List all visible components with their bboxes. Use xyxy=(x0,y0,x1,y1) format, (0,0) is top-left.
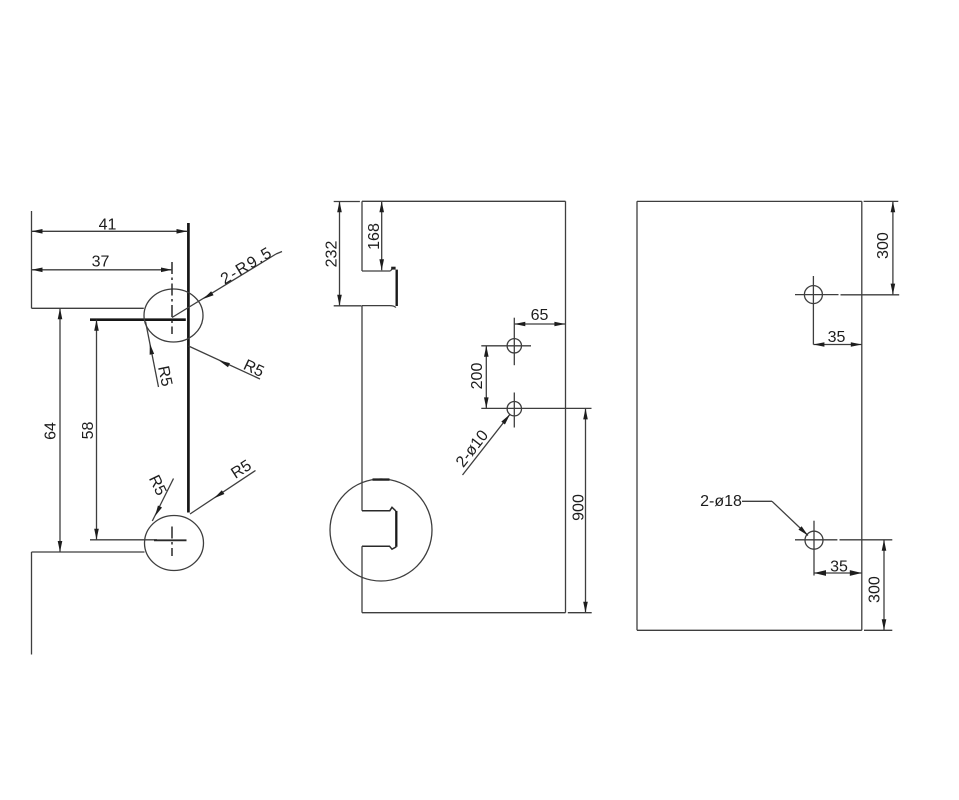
wire: right edge xyxy=(861,201,863,630)
arrow leader o18 xyxy=(798,526,809,537)
wire: top outer horizontal xyxy=(32,307,144,309)
svg-text:2-ø18: 2-ø18 xyxy=(700,493,742,510)
arrows 64 xyxy=(58,308,63,319)
node: bottom lobe cross horizontal thick part xyxy=(154,539,187,541)
arrows 65 xyxy=(514,322,525,327)
hole 1 circle xyxy=(507,339,521,353)
svg-text:2-R9.5: 2-R9.5 xyxy=(218,244,276,288)
hole 1 cross horizontal xyxy=(481,345,531,347)
notch 2 bottom edge xyxy=(362,546,396,549)
notch 2 top edge xyxy=(362,507,396,511)
svg-text:R5: R5 xyxy=(241,357,267,381)
arrows 58 xyxy=(94,320,99,331)
arrows 300 bottom xyxy=(882,540,887,551)
node: bottom lobe circle R9.5 xyxy=(145,516,204,571)
svg-text:65: 65 xyxy=(531,307,549,324)
arrows 300 top xyxy=(891,201,896,212)
leader 2-o18 horizontal xyxy=(742,500,772,502)
dimension 35 top line xyxy=(813,344,861,346)
wire: left edge upper xyxy=(361,201,363,271)
dimension 300 top line xyxy=(892,201,894,294)
svg-text:64: 64 xyxy=(43,422,60,440)
detail circle top thick dash xyxy=(373,478,390,480)
arrows 41 xyxy=(32,229,43,234)
svg-text:R5: R5 xyxy=(228,457,254,482)
svg-text:200: 200 xyxy=(469,363,486,390)
arrows 200 xyxy=(484,346,489,357)
arrow leader o10 xyxy=(501,413,511,425)
leader 2-R9.5 xyxy=(172,254,276,318)
wire: left edge middle xyxy=(361,306,363,511)
wire: bottom edge with extension xyxy=(637,629,862,631)
leader R5 bottom-left xyxy=(152,479,173,522)
svg-text:41: 41 xyxy=(99,217,117,234)
wire: left outer vertical top xyxy=(31,211,33,308)
hole 2 circle xyxy=(507,402,521,416)
notch 2 right edge thick xyxy=(395,511,397,547)
arrows 37 xyxy=(32,268,43,273)
svg-text:300: 300 xyxy=(875,232,892,259)
dimension 64 line xyxy=(59,308,61,552)
arrow leader R9.5 xyxy=(202,291,214,301)
wire: bottom edge with extension xyxy=(362,612,566,614)
dimension 41 line xyxy=(32,230,188,232)
arrows 900 xyxy=(583,408,588,419)
svg-text:300: 300 xyxy=(867,576,884,603)
wire: thick right vertical edge xyxy=(187,223,190,513)
dimension 900 line xyxy=(585,408,587,612)
dimension 168 line xyxy=(381,201,383,270)
wire: left edge xyxy=(636,201,638,630)
arrows 35 bottom xyxy=(814,570,826,576)
leader R5 bottom-right xyxy=(190,471,256,515)
dimension 35 bottom line xyxy=(814,572,862,574)
arrows 168 xyxy=(379,201,384,212)
leader 2-o18 slanted xyxy=(772,501,808,535)
svg-text:37: 37 xyxy=(92,254,110,271)
hole 2 cross horizontal long xyxy=(481,407,591,409)
arrow R5 bottom-right xyxy=(213,490,225,500)
wire: right edge xyxy=(565,201,567,612)
arrow R5 bottom-left xyxy=(153,505,162,517)
wire: left edge lower xyxy=(361,546,363,613)
svg-text:168: 168 xyxy=(366,223,383,250)
arrow R5 top-left xyxy=(148,343,155,355)
hole 2 cross vertical xyxy=(513,393,515,428)
svg-text:35: 35 xyxy=(828,329,846,346)
node: bottom lobe horizontal line / 58 extension xyxy=(90,539,157,541)
node: top lobe centerline vertical xyxy=(171,262,173,334)
svg-text:35: 35 xyxy=(830,559,848,576)
node: bottom lobe centerline vertical xyxy=(171,527,173,557)
dimension 65 line xyxy=(514,323,565,325)
wire: thick top horizontal edge xyxy=(90,318,186,321)
dimension 58 line xyxy=(96,320,98,540)
dimension 37 line xyxy=(32,269,173,271)
wire: top edge with extension xyxy=(334,201,360,203)
svg-text:2-ø10: 2-ø10 xyxy=(453,427,492,470)
node: top lobe circle R9.5 xyxy=(144,289,203,342)
dimension 300 bottom line xyxy=(883,540,885,631)
hole 2 cross vertical xyxy=(813,521,815,576)
detail circle xyxy=(330,479,432,581)
hole 1 cross horizontal xyxy=(795,294,839,296)
leader R5 top-left xyxy=(146,322,159,388)
wire: bottom outer horizontal xyxy=(32,551,145,553)
leader 2-o10 xyxy=(463,414,510,475)
svg-text:R5: R5 xyxy=(154,364,175,388)
wire: left outer vertical bottom xyxy=(31,552,33,655)
wire: top edge with extension xyxy=(637,200,862,202)
leader R5 top-right xyxy=(189,346,261,379)
notch 1 outline xyxy=(362,270,390,272)
hole 1 circle right view xyxy=(804,286,822,304)
hole 1 cross vertical xyxy=(513,318,515,366)
arrows 232 xyxy=(337,201,342,212)
hole 2 cross horizontal xyxy=(795,539,837,541)
dimension 232 line xyxy=(339,201,341,305)
svg-text:900: 900 xyxy=(571,494,588,521)
arrows 35 top xyxy=(813,342,824,347)
hole 1 cross vertical xyxy=(812,276,814,345)
dimension 200 line xyxy=(485,346,487,409)
hole 2 circle right view xyxy=(805,531,823,549)
dim 232 bottom extension xyxy=(334,305,362,307)
svg-text:58: 58 xyxy=(80,422,97,440)
svg-text:232: 232 xyxy=(324,241,341,268)
arrow R5 top-right xyxy=(218,358,230,367)
